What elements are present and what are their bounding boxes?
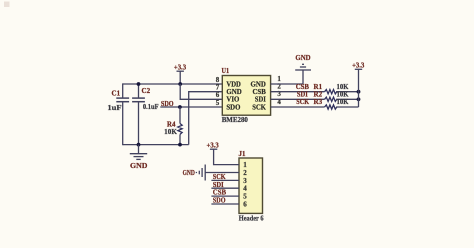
svg-text:+3.3: +3.3 [207, 141, 219, 150]
resistor R3 [325, 105, 337, 109]
wire GND bottom rail [123, 144, 189, 146]
junction SDO/R4 [178, 105, 182, 109]
ground GND (below caps) [130, 145, 147, 160]
svg-text:5: 5 [216, 99, 220, 107]
svg-text:GND: GND [295, 53, 311, 62]
junction R1/+3.3 [357, 90, 361, 94]
svg-text:10K: 10K [164, 128, 177, 136]
svg-text:C2: C2 [142, 87, 151, 95]
wire VIO (row 3 from +3.3 junction) [180, 84, 222, 99]
wire VDD rail (row 1, C1 to U1 pin 8) [123, 83, 223, 85]
svg-text:5: 5 [243, 193, 247, 201]
wire R2 to +3.3 bus [336, 98, 358, 100]
resistor R2 [325, 97, 337, 101]
svg-text:1uF: 1uF [107, 104, 121, 112]
svg-text:2: 2 [243, 169, 247, 177]
power +3.3 (J1) [210, 148, 217, 150]
wire SDO (row 4) [160, 106, 222, 108]
svg-text:BME280: BME280 [222, 116, 249, 124]
svg-text:R3: R3 [314, 98, 323, 106]
wire R1 to +3.3 bus [336, 91, 358, 93]
power +3.3 (left, feeds VDD/VIO) [177, 71, 184, 84]
svg-text:GND: GND [130, 161, 148, 170]
junction +3.3/VDD rail [178, 82, 182, 86]
svg-text:SDO: SDO [161, 99, 174, 108]
svg-text:+3.3: +3.3 [352, 61, 364, 70]
junction C2/VDD rail [137, 82, 141, 86]
svg-text:4: 4 [243, 185, 247, 193]
svg-text:Header 6: Header 6 [239, 214, 264, 222]
power +3.3 (right) [355, 68, 362, 70]
wire J1 pin 6 (SDO) [211, 203, 239, 205]
junction C2/GND rail [137, 143, 141, 147]
wire J1 pin 1 to +3.3 [214, 149, 239, 164]
junction R2/+3.3 [357, 97, 361, 101]
svg-text:3: 3 [243, 177, 247, 185]
wire SCK (row 4 right) [271, 106, 325, 108]
resistor R1 [325, 90, 337, 94]
svg-text:GND: GND [183, 168, 196, 177]
svg-text:SCK: SCK [252, 102, 266, 111]
wire +3.3 pull-up bus (vertical) [358, 69, 360, 107]
IC U1 BME280 body [222, 76, 270, 116]
svg-text:1: 1 [243, 161, 247, 169]
ground GND (top right, inverted) [295, 64, 311, 70]
capacitor C2 [132, 84, 145, 145]
svg-text:J1: J1 [239, 150, 247, 158]
svg-text:+3.3: +3.3 [174, 63, 186, 72]
svg-text:6: 6 [243, 200, 247, 208]
ground GND (J1, rotated left) [196, 165, 205, 181]
svg-text:10K: 10K [337, 98, 349, 106]
svg-text:SCK: SCK [296, 97, 309, 106]
wire J1 pin 2 to GND [205, 172, 239, 174]
svg-text:C1: C1 [112, 90, 121, 98]
wire U1 pin 1 to GND [271, 70, 303, 84]
capacitor C1 [116, 83, 129, 145]
junction R4/GND rail [178, 143, 182, 147]
svg-text:SDO: SDO [226, 102, 240, 111]
svg-text:SDO: SDO [213, 196, 226, 205]
wire GND pin 7 to bottom rail [189, 92, 223, 145]
wire J1 pin 4 (SDI) [211, 187, 239, 189]
connector J1 body [239, 158, 263, 213]
wire CSB (row 2 right) [271, 91, 325, 93]
svg-text:U1: U1 [222, 67, 230, 75]
resistor R4 (SDO pulldown) [178, 107, 182, 145]
wire R3 to +3.3 bus [336, 106, 358, 108]
wire J1 pin 3 (SCK) [211, 179, 239, 181]
wire J1 pin 5 (CSB) [211, 195, 239, 197]
svg-text:0.1uF: 0.1uF [143, 103, 159, 111]
wire SDI (row 3 right) [271, 98, 325, 100]
